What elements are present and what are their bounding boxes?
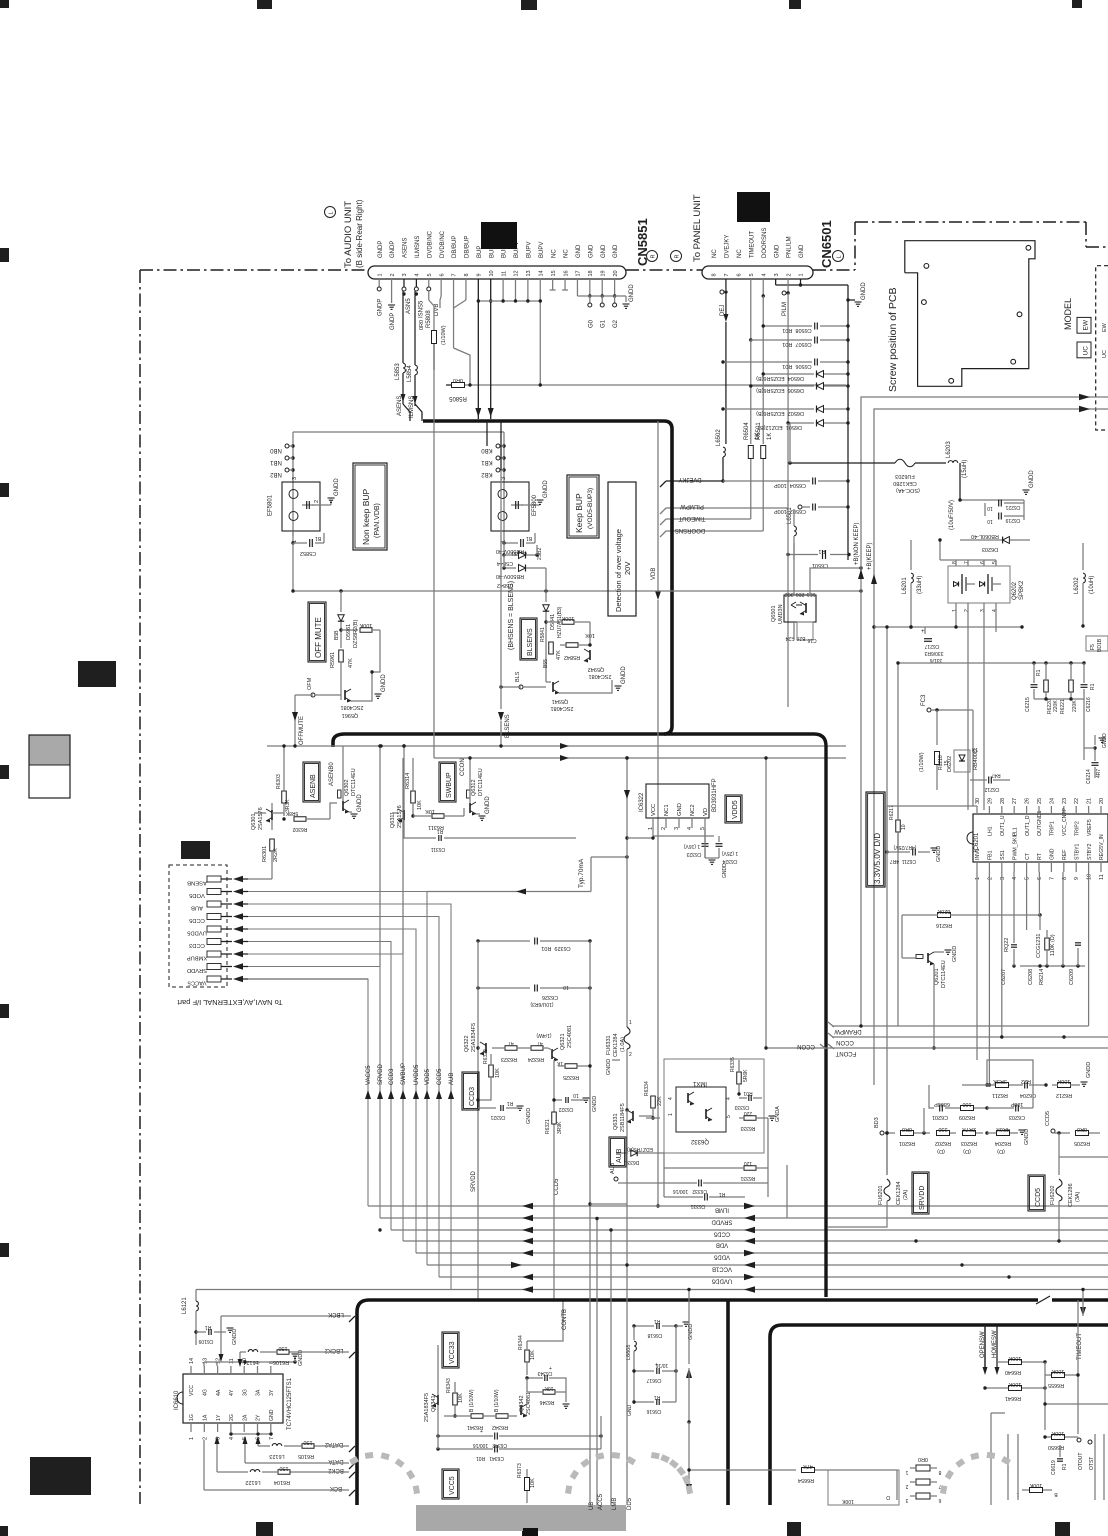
svg-text:10: 10 bbox=[987, 518, 993, 524]
resistor R6641 100K bbox=[1009, 1386, 1022, 1391]
capacitor C6201 6800P row bbox=[929, 1085, 934, 1108]
svg-text:(B side-Rear Right): (B side-Rear Right) bbox=[355, 199, 364, 268]
signal flag DVEJKY bbox=[666, 480, 723, 482]
svg-text:4: 4 bbox=[415, 273, 421, 276]
IC6610 top pin 8 bbox=[270, 1366, 272, 1374]
svg-text:GNDD: GNDD bbox=[1024, 1129, 1030, 1145]
svg-text:R22: R22 bbox=[1021, 1078, 1031, 1084]
resistor R6303 3R3K bbox=[282, 791, 287, 803]
svg-text:B1: B1 bbox=[315, 535, 321, 541]
svg-text:GNDP: GNDP bbox=[390, 241, 396, 258]
labels OTOUT OTST bbox=[1077, 1438, 1081, 1442]
bus SWBUP extension up bbox=[402, 758, 404, 954]
junction dots on long rails bbox=[914, 1239, 917, 1242]
svg-text:2SC4081: 2SC4081 bbox=[567, 1025, 573, 1048]
svg-text:B5B: B5B bbox=[334, 630, 340, 640]
svg-text:3: 3 bbox=[774, 273, 780, 276]
resistor R6311 10K bbox=[392, 812, 398, 814]
resistor R6323 47 bbox=[505, 1046, 517, 1051]
vertical x898 bbox=[897, 663, 899, 1026]
svg-text:13: 13 bbox=[202, 1358, 208, 1364]
svg-text:25: 25 bbox=[1037, 798, 1043, 804]
svg-text:4A: 4A bbox=[216, 1389, 222, 1396]
svg-text:2B1: 2B1 bbox=[795, 591, 804, 597]
capacitor C6342 100/16 bbox=[494, 1433, 496, 1440]
wire pin1 GND bbox=[800, 279, 802, 285]
IC6201 pin 9 bbox=[1075, 862, 1077, 872]
capacitor C6618 R1 bbox=[634, 1325, 654, 1327]
svg-text:(D): (D) bbox=[997, 1148, 1005, 1154]
svg-text:CCON: CCON bbox=[797, 1043, 815, 1049]
svg-text:B (1/10W): B (1/10W) bbox=[469, 1389, 475, 1412]
wire SRVDD column x478 bbox=[477, 941, 479, 1108]
svg-text:R6331: R6331 bbox=[740, 1175, 755, 1181]
svg-text:17: 17 bbox=[576, 270, 582, 276]
diode D6331 EDZ7R5(B) bbox=[616, 1152, 628, 1154]
screw holes bbox=[924, 264, 929, 269]
svg-text:C6321: C6321 bbox=[490, 1114, 505, 1120]
svg-text:(1/10W): (1/10W) bbox=[441, 325, 447, 345]
svg-text:10: 10 bbox=[1087, 874, 1093, 880]
wire right column x590 bbox=[589, 941, 591, 1204]
svg-text:1: 1 bbox=[905, 1469, 908, 1475]
svg-text:10K: 10K bbox=[458, 1393, 464, 1403]
svg-text:C6208: C6208 bbox=[1028, 969, 1034, 985]
horizontal rail y1277 bbox=[439, 1276, 1108, 1278]
svg-text:22: 22 bbox=[1074, 798, 1080, 804]
svg-text:VCC33: VCC33 bbox=[449, 1341, 456, 1364]
capacitor C6506 R01 bbox=[723, 361, 812, 363]
svg-text:100K: 100K bbox=[1057, 1078, 1070, 1084]
resistor R6325 1K bbox=[565, 1064, 577, 1069]
svg-text:R6212: R6212 bbox=[1056, 1092, 1072, 1098]
capacitor C5851 bbox=[504, 542, 518, 544]
boxed EW bbox=[1077, 317, 1091, 333]
svg-text:C6508 R01: C6508 R01 bbox=[782, 327, 811, 333]
svg-text:100K: 100K bbox=[1029, 1482, 1042, 1488]
wire rail y699 bbox=[1034, 698, 1084, 700]
IC6201 pin 11 bbox=[1100, 862, 1102, 872]
IC6201 pin 27 bbox=[1013, 806, 1015, 814]
resistor R6331 120 bbox=[744, 1166, 756, 1171]
rail UVDD5 left extension to L6121 bbox=[196, 1289, 451, 1291]
resistor R6216 820K bbox=[938, 913, 951, 918]
wire NB rail top bbox=[293, 431, 504, 433]
svg-text:(BHSENS = BLSENS): (BHSENS = BLSENS) bbox=[508, 581, 515, 650]
svg-text:BLS: BLS bbox=[515, 671, 521, 682]
svg-text:G1: G1 bbox=[601, 319, 607, 328]
svg-text:4: 4 bbox=[1012, 877, 1018, 880]
ground GNDD (VCC33) bbox=[563, 1403, 570, 1405]
svg-text:100: 100 bbox=[962, 1101, 971, 1107]
svg-text:CEK1284: CEK1284 bbox=[613, 1033, 619, 1057]
svg-text:KB2: KB2 bbox=[481, 471, 493, 477]
terminals KB0 KB1 KB2 bbox=[502, 444, 505, 447]
svg-text:Q5941: Q5941 bbox=[552, 698, 569, 704]
svg-text:8: 8 bbox=[464, 273, 470, 276]
svg-text:820K: 820K bbox=[937, 908, 950, 914]
svg-text:FU6331: FU6331 bbox=[606, 1035, 612, 1055]
transistor Q5961 2SC4081 bbox=[340, 662, 342, 690]
svg-text:CT: CT bbox=[1025, 852, 1031, 860]
svg-text:CCD5: CCD5 bbox=[437, 1068, 443, 1085]
wire L6121 feed bbox=[195, 1290, 197, 1301]
svg-text:5: 5 bbox=[749, 273, 755, 276]
svg-text:L6502: L6502 bbox=[716, 429, 722, 446]
resistor R5805 0R0 bbox=[446, 384, 452, 386]
svg-text:L6203: L6203 bbox=[946, 441, 952, 458]
IC6610 top pin 10 bbox=[243, 1366, 245, 1374]
svg-text:GND: GND bbox=[269, 1409, 275, 1421]
rails right short bbox=[1044, 1362, 1046, 1430]
svg-text:C6619: C6619 bbox=[1051, 1460, 1057, 1475]
wires AUB box sides bbox=[663, 1153, 665, 1197]
svg-text:GND: GND bbox=[774, 244, 780, 258]
wires OPENSW HOMESW drop bbox=[984, 1325, 986, 1368]
svg-text:C6326: C6326 bbox=[542, 994, 558, 1000]
svg-text:CN6501: CN6501 bbox=[819, 220, 834, 268]
wires IC6201 pins 1-3 down bbox=[976, 872, 978, 1060]
svg-text:GNDD: GNDD bbox=[606, 1059, 612, 1075]
svg-text:R6322: R6322 bbox=[483, 1049, 489, 1064]
svg-text:0R0: 0R0 bbox=[1077, 1126, 1087, 1132]
svg-text:R6324: R6324 bbox=[528, 1056, 544, 1062]
svg-text:2SA1834F5: 2SA1834F5 bbox=[424, 1393, 430, 1422]
svg-text:CONTB: CONTB bbox=[562, 1309, 568, 1330]
gray dotted arc left bbox=[413, 1485, 420, 1494]
svg-text:R6217: R6217 bbox=[889, 805, 895, 820]
wire pin3 GND to rail bbox=[775, 279, 777, 285]
horizontal rail y1218 bbox=[380, 1217, 1108, 1219]
svg-text:R1: R1 bbox=[507, 1100, 514, 1106]
resistor R6203 2R7K (D) bbox=[963, 1131, 976, 1136]
svg-text:7: 7 bbox=[452, 273, 458, 276]
svg-text:ACC5: ACC5 bbox=[598, 1493, 604, 1510]
svg-text:5R8K: 5R8K bbox=[285, 810, 298, 816]
IC6610 bottom pin 7 bbox=[270, 1423, 272, 1432]
registration marks (page alignment) bbox=[0, 0, 9, 8]
svg-text:9: 9 bbox=[477, 273, 483, 276]
svg-text:220: 220 bbox=[744, 1110, 753, 1116]
IC6610 bottom pin 5 bbox=[243, 1423, 245, 1432]
svg-text:C6211 4R7: C6211 4R7 bbox=[890, 858, 917, 864]
main dash-dot frame border bbox=[139, 270, 141, 1504]
svg-text:VCC: VCC bbox=[189, 1385, 195, 1396]
IC6201 pin 2 bbox=[988, 862, 990, 872]
resistor R6221 220K bbox=[1069, 680, 1074, 692]
transistor Q5942 2SC4081 bbox=[589, 650, 591, 660]
ground GNDD (R6212) bbox=[1081, 1081, 1088, 1083]
screw-position dash-dot frame bbox=[854, 222, 856, 270]
wire VDB drop bbox=[657, 421, 659, 560]
svg-text:HOMESW: HOMESW bbox=[992, 1330, 998, 1358]
capacitor C6321 R1 bbox=[478, 1107, 496, 1109]
signal flag PILMPW bbox=[666, 507, 720, 509]
svg-text:4R6K: 4R6K bbox=[996, 1126, 1010, 1132]
svg-text:SWBUP: SWBUP bbox=[401, 1063, 407, 1085]
signal flag BCK bbox=[349, 1490, 355, 1496]
thick vertical x728 bbox=[726, 1300, 730, 1505]
vertical gray lines bottom right bbox=[1007, 1434, 1009, 1500]
wire Q6201 emitter down bbox=[933, 964, 935, 1048]
svg-text:C6501: C6501 bbox=[812, 562, 828, 568]
svg-text:GNDD: GNDD bbox=[936, 846, 942, 862]
wire BLSENS down bbox=[501, 686, 521, 688]
svg-text:R5805: R5805 bbox=[449, 395, 467, 401]
block label Detection of over voltage 20V bbox=[608, 482, 636, 616]
inductor L5854 bbox=[415, 365, 417, 375]
svg-text:100P: 100P bbox=[1010, 1101, 1023, 1107]
svg-text:UC: UC bbox=[1102, 350, 1108, 358]
svg-text:R6204: R6204 bbox=[995, 1140, 1011, 1146]
svg-text:11: 11 bbox=[1099, 874, 1105, 880]
svg-text:21: 21 bbox=[1087, 798, 1093, 804]
svg-text:L6121: L6121 bbox=[182, 1297, 188, 1314]
svg-text:(SOC.4A): (SOC.4A) bbox=[896, 487, 920, 493]
svg-text:1Y: 1Y bbox=[216, 1414, 222, 1421]
svg-text:0R0: 0R0 bbox=[918, 1456, 928, 1462]
svg-text:C6215: C6215 bbox=[1025, 697, 1031, 712]
svg-text:3R3K: 3R3K bbox=[993, 1078, 1007, 1084]
wire pins15-16 NC stubs bbox=[552, 279, 554, 290]
svg-text:SS1: SS1 bbox=[1000, 850, 1006, 860]
svg-text:CEK1280: CEK1280 bbox=[893, 480, 917, 486]
wire Q5961 emitter to ground bbox=[351, 672, 372, 701]
svg-text:R6346: R6346 bbox=[539, 1399, 554, 1405]
svg-text:2G: 2G bbox=[229, 1414, 235, 1421]
capacitor C6215 R1 bbox=[1031, 684, 1038, 686]
block label ASENB bbox=[303, 762, 320, 802]
bottom left box (sw matrix) bbox=[828, 1470, 899, 1505]
signal flag BCK2 + R6104 L6122 bbox=[349, 1472, 355, 1478]
capacitor C6341 R01 bbox=[494, 1446, 496, 1453]
svg-text:SPBK2: SPBK2 bbox=[1019, 580, 1025, 600]
svg-text:G0: G0 bbox=[588, 319, 594, 328]
capacitor C6332 100/16 bbox=[698, 1180, 700, 1187]
svg-text:4Y: 4Y bbox=[229, 1389, 235, 1396]
svg-text:Detection of over voltage: Detection of over voltage bbox=[614, 529, 623, 612]
zener D6506 EDZ5R6(B) bbox=[751, 385, 814, 387]
svg-text:R6654: R6654 bbox=[798, 1477, 814, 1483]
svg-text:R: R bbox=[675, 255, 681, 259]
svg-text:C6617: C6617 bbox=[646, 1377, 661, 1383]
svg-text:C6333: C6333 bbox=[734, 1104, 749, 1110]
svg-text:4: 4 bbox=[992, 609, 998, 612]
svg-text:C6219: C6219 bbox=[1005, 517, 1020, 523]
svg-text:GNDD: GNDD bbox=[952, 946, 958, 962]
capacitor C6207 bbox=[1011, 944, 1017, 946]
wire PILM line extension down bbox=[787, 423, 789, 707]
IC IC6610 TC74VHC125FTS1 bbox=[183, 1374, 283, 1423]
svg-text:NB2: NB2 bbox=[270, 471, 282, 477]
svg-text:R6205: R6205 bbox=[1074, 1140, 1090, 1146]
svg-text:TIMEOUT: TIMEOUT bbox=[678, 515, 705, 521]
svg-text:D6202: D6202 bbox=[947, 756, 953, 772]
svg-text:7: 7 bbox=[1049, 877, 1055, 880]
circled L (CN6501) bbox=[833, 251, 844, 262]
block label AUB bbox=[609, 1137, 626, 1167]
resistor R6218 15 (1/10W) bbox=[935, 752, 940, 765]
transistor Q5941 2SC4081 bbox=[546, 681, 551, 683]
svg-text:BD1B: BD1B bbox=[1097, 638, 1103, 652]
black mark near CN6501 bbox=[737, 192, 770, 222]
svg-text:D6506 EDZ5R6(B): D6506 EDZ5R6(B) bbox=[756, 387, 804, 393]
svg-text:L5854: L5854 bbox=[407, 365, 413, 382]
svg-text:20: 20 bbox=[1099, 798, 1105, 804]
svg-text:DRAMPW: DRAMPW bbox=[834, 1028, 862, 1034]
svg-text:L5853: L5853 bbox=[395, 363, 401, 380]
svg-text:DD5: DD5 bbox=[627, 1497, 633, 1510]
svg-text:R47: R47 bbox=[991, 772, 1000, 778]
svg-text:4: 4 bbox=[687, 827, 693, 830]
svg-text:MODEL: MODEL bbox=[1063, 298, 1073, 330]
label Typ.70mA wire bbox=[591, 856, 627, 858]
svg-text:SRVDD: SRVDD bbox=[711, 1219, 733, 1225]
svg-text:10/16: 10/16 bbox=[656, 1362, 669, 1368]
vertical wire x689 from UVDD5 rail bbox=[688, 1290, 690, 1327]
svg-text:R6214: R6214 bbox=[1039, 969, 1045, 985]
wire ILMB corner up bbox=[786, 1165, 788, 1219]
svg-text:3: 3 bbox=[501, 477, 507, 480]
capacitor C6507 R01 bbox=[751, 339, 812, 341]
svg-text:NC: NC bbox=[551, 249, 557, 258]
svg-text:6: 6 bbox=[737, 273, 743, 276]
block label SRVDD bbox=[912, 1172, 929, 1214]
PCB outline polygon bbox=[905, 241, 1035, 387]
svg-text:L: L bbox=[837, 255, 843, 258]
svg-text:C6331: C6331 bbox=[690, 1203, 705, 1209]
svg-text:5: 5 bbox=[992, 561, 998, 564]
ground GNDD (R6204) bbox=[1019, 1129, 1026, 1131]
svg-text:UC: UC bbox=[1083, 346, 1090, 356]
wire Q6342 net bbox=[526, 1399, 528, 1405]
svg-text:47K: 47K bbox=[556, 650, 562, 660]
resistor R6217 10 bbox=[896, 820, 901, 832]
svg-text:(10U/6R3): (10U/6R3) bbox=[530, 1001, 553, 1007]
IC6201 pin 30 bbox=[976, 806, 978, 814]
resistor R6655 100K bbox=[1052, 1373, 1065, 1378]
svg-text:C5852: C5852 bbox=[300, 550, 316, 556]
svg-text:NC: NC bbox=[737, 249, 743, 258]
svg-text:3: 3 bbox=[980, 609, 986, 612]
IC6201 pin 29 bbox=[988, 806, 990, 814]
capacitor C6109 R1 bbox=[196, 1331, 206, 1333]
svg-text:GNDD: GNDD bbox=[1102, 733, 1108, 748]
wire BD3 column + fuse FU6201 CEK1284 (2A) bbox=[886, 1133, 888, 1175]
block label CCD5 bbox=[1028, 1175, 1045, 1211]
svg-text:(D): (D) bbox=[937, 1148, 945, 1154]
svg-text:GND: GND bbox=[613, 244, 619, 258]
svg-text:R6203: R6203 bbox=[961, 1140, 977, 1146]
ground GNDD (CN6501) bbox=[846, 298, 849, 301]
svg-text:VACC5: VACC5 bbox=[188, 980, 207, 986]
svg-text:4R7: 4R7 bbox=[1096, 769, 1102, 778]
svg-text:8: 8 bbox=[952, 561, 958, 564]
svg-text:R6640: R6640 bbox=[1005, 1369, 1021, 1375]
svg-text:D6203: D6203 bbox=[982, 546, 998, 552]
wire D5842 to rail and down bbox=[503, 555, 505, 568]
wire OFFMUTE down bbox=[295, 694, 313, 696]
svg-text:SWBUP: SWBUP bbox=[446, 772, 453, 798]
svg-text:2SC4081: 2SC4081 bbox=[589, 673, 612, 679]
svg-text:UVDD5: UVDD5 bbox=[187, 930, 207, 936]
wire VDD5 net bbox=[652, 828, 654, 836]
svg-text:150: 150 bbox=[279, 1465, 288, 1471]
big block outer border bbox=[357, 1300, 1108, 1505]
tie GND pins 17-20 bbox=[576, 279, 578, 296]
svg-text:20V: 20V bbox=[623, 562, 632, 575]
svg-text:5: 5 bbox=[726, 1115, 732, 1118]
svg-text:4G: 4G bbox=[203, 1389, 209, 1396]
resistor R6373 10K bbox=[525, 1478, 530, 1491]
resistor R6343 10K bbox=[453, 1393, 458, 1405]
jog ASENS/ILMSNS into thick bus bbox=[403, 404, 410, 421]
svg-text:UMD3N: UMD3N bbox=[778, 604, 784, 624]
svg-text:CCD3: CCD3 bbox=[469, 1087, 476, 1106]
capacitor C6219 10 bbox=[998, 513, 1000, 520]
svg-text:XMBUP: XMBUP bbox=[187, 955, 208, 961]
svg-text:47K: 47K bbox=[803, 1463, 813, 1469]
svg-text:R1: R1 bbox=[205, 1324, 212, 1330]
wire pin4 DOORSNS via R6501 bbox=[762, 279, 764, 296]
svg-text:R01: R01 bbox=[743, 1090, 752, 1096]
GND rail right of CN6501 bbox=[847, 285, 849, 560]
svg-text:R6325: R6325 bbox=[563, 1074, 579, 1080]
block label BLSENS bbox=[520, 618, 537, 660]
resistor R5981 100K bbox=[339, 628, 342, 631]
svg-text:VDD5: VDD5 bbox=[713, 1254, 730, 1260]
svg-text:220K: 220K bbox=[1053, 700, 1059, 712]
ground GNDD (CN5851) bbox=[625, 296, 627, 302]
test points G0 G1 G2 bbox=[589, 296, 591, 303]
wire Q5941 to ground bbox=[559, 680, 612, 693]
svg-text:VDB: VDB bbox=[651, 568, 657, 580]
vertical wire DD5 (x627 extension) bbox=[626, 1110, 628, 1505]
svg-text:2R7K: 2R7K bbox=[962, 1126, 976, 1132]
bus SRVDD extension up bbox=[379, 746, 381, 967]
svg-text:2: 2 bbox=[629, 1052, 632, 1058]
svg-text:R1: R1 bbox=[654, 1394, 661, 1400]
svg-text:VACC5: VACC5 bbox=[366, 1065, 372, 1085]
svg-text:10: 10 bbox=[573, 1092, 579, 1098]
resistor R6504 1K bbox=[748, 446, 753, 459]
svg-text:2: 2 bbox=[987, 877, 993, 880]
svg-text:DTC114EU: DTC114EU bbox=[941, 960, 947, 988]
svg-text:D6501 EDZ12(B): D6501 EDZ12(B) bbox=[758, 424, 802, 430]
svg-text:REF: REF bbox=[1062, 850, 1068, 860]
IC6201 pin 20 bbox=[1100, 806, 1102, 814]
svg-text:CCG1231: CCG1231 bbox=[1036, 934, 1042, 958]
svg-text:330/6R3: 330/6R3 bbox=[924, 650, 943, 656]
IC6201 pin 8 bbox=[1063, 862, 1065, 872]
svg-text:(VOD5-BUP3): (VOD5-BUP3) bbox=[587, 488, 594, 529]
inductor L6201 (33uH) bbox=[910, 540, 912, 570]
svg-text:Q6342: Q6342 bbox=[519, 1395, 525, 1412]
inductor L6502 bbox=[723, 447, 725, 457]
svg-text:3R9K: 3R9K bbox=[557, 1121, 563, 1134]
svg-text:GND: GND bbox=[677, 803, 683, 816]
capacitor C6323 (16V) bbox=[702, 843, 709, 845]
svg-text:SRVDD: SRVDD bbox=[471, 1170, 477, 1192]
svg-text:R6334: R6334 bbox=[644, 1081, 650, 1096]
resistor R6302 5R8K bbox=[294, 817, 306, 822]
connector CN6501 To PANEL UNIT bbox=[702, 266, 813, 279]
IC6610 bottom pin 6 bbox=[257, 1423, 259, 1432]
svg-text:Q6322: Q6322 bbox=[464, 1035, 470, 1052]
wire rail y591 bbox=[293, 590, 861, 592]
MOSFET pair Q6202 SPBK2 bbox=[948, 566, 1010, 603]
svg-text:331/6: 331/6 bbox=[930, 657, 943, 663]
